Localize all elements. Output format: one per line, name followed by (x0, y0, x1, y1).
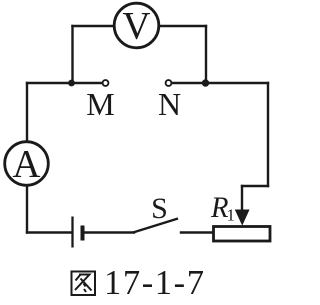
svg-text:17-1-7: 17-1-7 (104, 264, 206, 302)
junction dot left (node at M branch) (68, 80, 75, 87)
wire: right riser from corner down to junction row (205, 26, 207, 83)
wire: switch right contact to rheostat (181, 231, 214, 233)
voltmeter U-V circle (114, 3, 159, 48)
rheostat R1 body (214, 227, 271, 242)
caption character 图 (drawn) (72, 272, 96, 296)
wire: left vertical upper (corner to ammeter) (26, 83, 28, 141)
switch S blade (133, 219, 178, 233)
svg-text:N: N (158, 86, 181, 122)
battery long plate (positive) (71, 217, 73, 248)
wire: N circle to junction (172, 82, 206, 84)
wire: wiper drop to arrow (241, 186, 243, 213)
wire: step left (242, 185, 268, 187)
wire: voltmeter right to top-right corner (160, 25, 206, 27)
wire: junction row right segment from N junction to right edge (206, 82, 268, 84)
svg-text:M: M (86, 86, 114, 122)
wire: left vertical lower (ammeter to bottom corner) (26, 186, 28, 233)
battery short plate (negative) (81, 226, 85, 241)
terminal N open circle (166, 80, 172, 86)
svg-text:A: A (12, 143, 40, 186)
svg-text:1: 1 (227, 206, 236, 225)
rheostat wiper arrowhead (235, 210, 250, 226)
svg-text:S: S (151, 192, 168, 225)
wire: bottom-left horizontal to battery long plate (27, 231, 72, 233)
svg-text:V: V (122, 5, 150, 48)
junction dot right (node at N branch) (202, 79, 209, 86)
wire: battery to switch pivot (84, 231, 134, 233)
ammeter A circle (5, 142, 49, 186)
wire: top horizontal, corner to voltmeter left (73, 25, 114, 27)
wire: left riser from top wire down to junction row (71, 26, 73, 83)
wire: top-left horizontal from left corner to terminal M (27, 82, 102, 84)
wire: right vertical down (267, 83, 269, 186)
terminal M open circle (103, 80, 109, 86)
